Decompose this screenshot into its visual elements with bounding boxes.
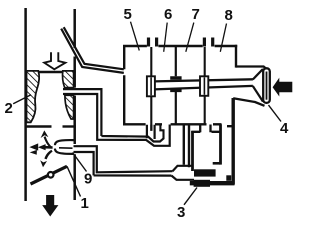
- filter bar 2 (black): [194, 180, 210, 187]
- svg-text:1: 1: [81, 195, 89, 212]
- leader line 3: [184, 188, 197, 205]
- svg-text:6: 6: [164, 6, 172, 23]
- nozzle (9) body: [55, 140, 74, 154]
- filter bar 1 (black): [194, 169, 216, 176]
- leader line 2: [13, 95, 31, 104]
- riser step piece: [160, 125, 163, 139]
- partition 2 with seal caps: [175, 47, 177, 124]
- svg-text:9: 9: [84, 171, 92, 188]
- wire: left barrel right wall (segments, gaps at crossings): [73, 9, 76, 200]
- svg-text:7: 7: [192, 6, 200, 23]
- channel bottom nub (black): [226, 175, 231, 181]
- box: top port stubs right: [204, 38, 212, 47]
- nozzle bore line: [59, 147, 73, 149]
- svg-text:8: 8: [225, 7, 233, 24]
- leader line 8: [220, 24, 226, 52]
- cup inner wall A: [219, 124, 222, 164]
- cup bottom: [190, 181, 235, 185]
- leader line 4: [269, 105, 282, 121]
- box: right edge: [235, 45, 237, 68]
- svg-text:5: 5: [124, 6, 132, 23]
- partition 1: [150, 47, 152, 131]
- venturi right upper hatched: [63, 71, 74, 88]
- leader line 7: [186, 23, 194, 52]
- port P5 below box into T1: [147, 125, 155, 139]
- tube: box right edge to horn top: [236, 67, 270, 72]
- box: top port stubs left: [149, 38, 157, 47]
- leader line 5: [131, 22, 140, 51]
- horn face disc: [263, 68, 270, 103]
- throttle shaft pivot circle: [48, 172, 54, 178]
- wire: throat bottom line left segment: [25, 125, 52, 127]
- wire: left barrel left wall: [24, 8, 27, 201]
- partition 3: [204, 47, 206, 125]
- tube: horn bottom line to cup channel: [233, 98, 264, 106]
- leader line 1: [67, 166, 81, 196]
- svg-text:4: 4: [280, 120, 289, 137]
- black flow arrow left (into horn): [273, 78, 293, 97]
- spool on partition 1: [147, 76, 155, 96]
- leader line 6: [164, 23, 168, 52]
- tube: bent vent tube top (diagonal into box): [61, 27, 124, 73]
- venturi 2 left hatched: [27, 71, 40, 122]
- spray arrows (fuel mist): [29, 130, 52, 167]
- black flow arrow down (bottom): [42, 195, 58, 217]
- shaft (double line): [154, 79, 253, 89]
- cup left wall: [191, 131, 194, 171]
- right channel outer wall: [231, 98, 234, 185]
- horn flare top: [253, 69, 263, 80]
- throttle plate 1: [31, 166, 68, 184]
- tube T1: venturi air passage to box bottom: [63, 89, 170, 146]
- wire: throat bottom line right segment: [63, 125, 76, 127]
- funnel from nozzle tube into cup: [172, 166, 195, 180]
- nozzle tube from carb to down corner: [73, 146, 173, 175]
- svg-text:2: 2: [5, 100, 13, 117]
- white flow arrow down (top): [44, 52, 65, 69]
- cup top edge + stubs: [191, 131, 220, 133]
- horn flare bottom: [253, 86, 263, 102]
- box: bottom edge segments: [123, 123, 222, 125]
- venturi right lower hatched: [65, 95, 74, 119]
- box: top edge: [123, 45, 237, 47]
- svg-text:3: 3: [177, 204, 185, 221]
- channel inner stub: [227, 125, 232, 127]
- wire: throat top line: [25, 71, 76, 73]
- P7 tube down to funnel: [184, 125, 189, 167]
- leader line 9: [73, 153, 87, 172]
- box: left edge: [123, 46, 125, 125]
- spool on partition 3: [200, 76, 208, 96]
